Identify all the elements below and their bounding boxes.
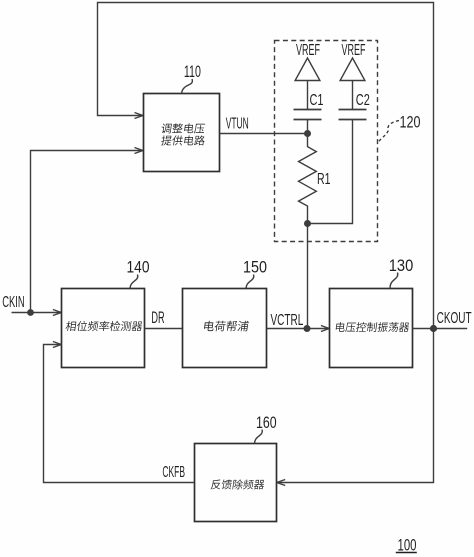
text 反馈除频器 (box 160): [211, 479, 265, 489]
arrowhead into 110 lower input: [135, 148, 144, 154]
dashed leader from label 120 to dashed box: [378, 121, 399, 142]
wire: R1 bottom node down to VCTRL node: [307, 224, 309, 329]
wire CKFB: box 160 output back around to box 140: [44, 345, 195, 483]
block 160: feedback frequency divider box: [195, 444, 277, 522]
capacitor C1 plates: [294, 110, 322, 120]
svg-text:CKOUT: CKOUT: [437, 310, 472, 327]
text 相位频率检测器 (box 140): [65, 321, 143, 331]
svg-text:130: 130: [389, 257, 414, 275]
block 110: adjust-voltage providing circuit box: [144, 94, 220, 172]
svg-text:120: 120: [400, 114, 421, 132]
wire VTUN: box 110 output to capacitor node: [220, 133, 308, 135]
arrowhead CKFB into 140: [53, 342, 62, 348]
resistor R1 zigzag: [299, 134, 317, 224]
node: CKIN junction dot: [27, 309, 34, 316]
wire VCTRL: box 150 to box 130: [267, 328, 330, 330]
node: VCTRL junction dot: [304, 325, 311, 332]
svg-text:VTUN: VTUN: [226, 115, 249, 132]
underline of label 100: [396, 552, 417, 554]
wire: C1 bottom plate to VTUN node: [307, 120, 309, 134]
svg-text:C1: C1: [310, 92, 324, 109]
text 电压控制振荡器 (box 130): [335, 322, 409, 332]
node: VTUN junction dot: [304, 130, 311, 137]
wire: CKIN branch up to box 110 lower input: [31, 151, 143, 313]
svg-text:150: 150: [243, 258, 267, 276]
arrowhead into 110 upper input: [135, 113, 144, 119]
VREF buffer triangle (left): [295, 58, 320, 81]
wire: left triangle to C1 top plate: [307, 81, 309, 110]
leader tick for label 130: [390, 273, 398, 289]
node: R1 bottom junction dot: [304, 220, 311, 227]
svg-text:CKFB: CKFB: [162, 464, 185, 481]
svg-text:DR: DR: [151, 309, 164, 327]
leader tick for label 110: [182, 79, 193, 94]
wire CKIN input: [12, 312, 62, 314]
svg-text:VREF: VREF: [342, 42, 366, 59]
VREF buffer triangle (right): [340, 58, 365, 81]
svg-text:100: 100: [398, 536, 417, 554]
svg-text:140: 140: [127, 258, 150, 276]
node: CKOUT junction dot: [430, 325, 437, 332]
wire: CKOUT feedback down and left into divider 160: [277, 329, 434, 483]
capacitor C2 plates: [339, 110, 367, 120]
svg-text:160: 160: [256, 414, 277, 432]
svg-text:CKIN: CKIN: [2, 294, 25, 311]
svg-text:C2: C2: [356, 92, 370, 109]
wire: top feedback path from CKOUT node to box 110 upper input: [98, 3, 434, 329]
svg-text:VREF: VREF: [296, 42, 320, 59]
block 150: charge pump box: [183, 289, 267, 368]
text 调整电压 (line 1 in box 110): [161, 123, 205, 133]
block 130: voltage controlled oscillator box: [330, 289, 413, 368]
text 电荷帮浦 (box 150): [204, 321, 249, 332]
leader tick for label 150: [246, 275, 254, 289]
arrowhead VCTRL into 130: [321, 326, 330, 332]
block 140: phase frequency detector box: [62, 289, 145, 368]
arrowhead CKIN into 140: [53, 310, 62, 316]
svg-text:R1: R1: [317, 171, 331, 188]
wire: right triangle to C2 top plate: [352, 81, 354, 110]
text 提供电路 (line 2 in box 110): [161, 135, 206, 145]
dashed box 120 (RC compensation network): [275, 41, 378, 242]
svg-text:VCTRL: VCTRL: [271, 312, 304, 329]
wire DR: box 140 to box 150: [145, 328, 183, 330]
leader tick for label 140: [130, 275, 138, 289]
leader tick for label 160: [255, 430, 263, 444]
arrowhead into 160 right side: [277, 480, 286, 486]
wire CKOUT output stub: [413, 328, 468, 330]
wire: C2 bottom plate down and over to R1 bottom node: [308, 120, 353, 224]
svg-text:110: 110: [184, 63, 201, 81]
